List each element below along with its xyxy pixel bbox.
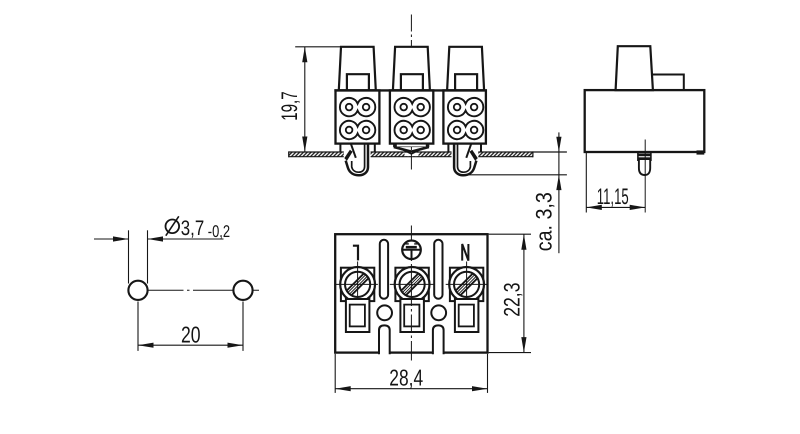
side foot centreline / extension <box>644 140 646 213</box>
dim ca 3,3 lower extension line <box>465 174 567 176</box>
pole 3 wire holes <box>448 98 483 116</box>
pole 2 funnel bar <box>393 144 429 148</box>
FRONT VIEW <box>277 15 567 254</box>
SIDE VIEW <box>585 46 705 212</box>
pole 2 tower <box>393 47 430 91</box>
pole 1 tower window <box>347 74 369 90</box>
pole 3 tower window <box>455 74 477 90</box>
svg-text:-0,2: -0,2 <box>208 222 230 241</box>
dim 20 extension right <box>242 302 244 351</box>
dim 28,4 arrow right <box>472 386 488 391</box>
screw crosshair vertical pole 3 <box>466 262 468 309</box>
hole right <box>233 281 252 300</box>
top view centre axis <box>410 226 412 361</box>
screw unit pole 2 <box>395 267 430 302</box>
holes centreline <box>128 289 260 291</box>
mounting plate left end <box>288 151 290 157</box>
screw crosshair horizontal pole 2 <box>390 283 435 285</box>
earth screw tick left <box>405 243 409 245</box>
centre axis through funnel <box>410 154 412 170</box>
dim 22,3 extension top <box>489 233 531 235</box>
bottom notch right <box>433 325 444 354</box>
dim 28,4 line <box>335 388 487 390</box>
wire port pole 1 <box>346 299 370 332</box>
dia dim arrow right <box>148 236 164 241</box>
dia dim arrow left <box>113 236 129 241</box>
hatch gap under funnel <box>405 153 419 156</box>
label L rotated <box>353 245 359 261</box>
dim 19,7 arrow down <box>302 137 307 153</box>
pole 2 tower window <box>401 74 423 90</box>
dim 22,3 arrow up <box>521 234 526 250</box>
dim 19,7 extension line top <box>295 46 342 48</box>
svg-text:11,15: 11,15 <box>597 184 629 209</box>
dia dim tail right <box>148 238 224 240</box>
label N <box>462 244 468 261</box>
locating hole left <box>377 305 392 320</box>
divider slot right <box>434 240 442 299</box>
dim 20 extension left <box>137 302 139 351</box>
dim 28,4 arrow left <box>335 386 351 391</box>
pole 3 body <box>443 90 486 143</box>
earth screw tick right <box>414 243 418 245</box>
mounting plate bottom line <box>289 156 533 158</box>
dim 11,15 arrow left <box>586 205 602 210</box>
pole 1 tower <box>339 47 376 91</box>
dim ca 3,3 line <box>558 132 560 253</box>
centre axis front view <box>410 15 412 151</box>
pole 1 pedestal <box>339 144 341 152</box>
dim 11,15 arrow right <box>630 205 646 210</box>
side foot shank <box>639 160 650 176</box>
screw crosshair vertical pole 1 <box>357 262 359 309</box>
screw crosshair horizontal pole 1 <box>335 283 378 285</box>
bottom notch left <box>379 325 390 354</box>
snap foot right (mirror) <box>452 144 479 176</box>
svg-text:ca. 3,3: ca. 3,3 <box>532 192 557 251</box>
screw unit pole 1 <box>340 267 375 302</box>
pole 2 funnel V <box>394 147 429 152</box>
dim 19,7 arrow up <box>302 47 307 63</box>
earth screw stem <box>411 250 413 259</box>
locating hole right <box>431 305 446 320</box>
flange line <box>334 89 487 91</box>
dim 19,7 line <box>304 47 306 152</box>
dim 11,15 extension left <box>585 153 587 213</box>
svg-text:22,3: 22,3 <box>499 283 524 317</box>
divider slot left <box>380 240 388 299</box>
dia symbol slash <box>166 216 179 235</box>
mounting plate top line <box>289 151 567 153</box>
dim 20 arrow right <box>228 343 244 348</box>
dim 22,3 arrow down <box>521 337 526 353</box>
side step block <box>653 75 684 91</box>
screw unit pole 3 <box>449 267 484 302</box>
earth screw chord <box>402 249 420 251</box>
dim 28,4 extension right <box>487 354 489 393</box>
side foot rib frame <box>637 153 639 161</box>
side body <box>585 90 705 152</box>
dim 22,3 extension bottom <box>489 352 531 354</box>
svg-text:28,4: 28,4 <box>389 364 423 390</box>
svg-text:19,7: 19,7 <box>277 91 302 121</box>
earth screw slot <box>406 246 417 249</box>
HOLE PLAN <box>94 216 260 351</box>
wire port pole 3 <box>455 299 479 332</box>
hole left <box>128 281 147 300</box>
dim ca 3,3 arrow up <box>556 175 561 190</box>
pole 3 tower <box>447 47 484 91</box>
pole 1 body <box>336 90 380 143</box>
side foot rib 1 <box>638 154 651 157</box>
dia dim tail left <box>94 238 129 240</box>
side tower <box>616 46 653 90</box>
wire port pole 2 <box>400 299 424 332</box>
pole 1 wire holes <box>340 98 375 116</box>
mounting plate hatch <box>289 152 533 157</box>
pole 2 body <box>390 90 433 143</box>
pole 2 wire holes <box>395 98 430 116</box>
dim 20 arrow left <box>138 343 154 348</box>
dim 22,3 line <box>523 234 525 352</box>
dia symbol circle <box>166 220 180 234</box>
screw crosshair horizontal pole 3 <box>446 283 488 285</box>
svg-text:20: 20 <box>181 321 201 347</box>
earth screw circle <box>402 241 421 260</box>
top view outline <box>335 234 487 352</box>
dim 20 line <box>138 344 243 346</box>
svg-text:3,7: 3,7 <box>181 217 204 240</box>
side foot rib 2 <box>638 157 651 160</box>
dim 28,4 extension left <box>334 354 336 393</box>
snap foot left <box>344 144 371 176</box>
pole 3 pedestal <box>447 144 449 152</box>
dim ca 3,3 arrow down <box>556 137 561 152</box>
dia dim extension left <box>128 230 130 283</box>
dia dim extension right <box>147 230 149 283</box>
dim 11,15 line <box>586 206 645 208</box>
mounting plate right end <box>532 151 534 157</box>
TOP VIEW <box>335 226 531 393</box>
side bottom notch <box>697 150 705 154</box>
